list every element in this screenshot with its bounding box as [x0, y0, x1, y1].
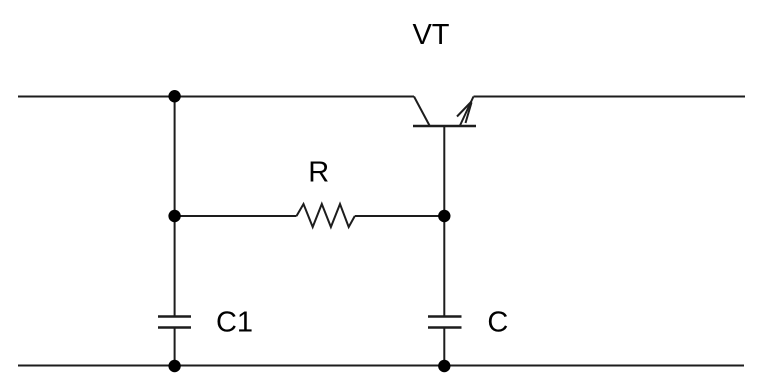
wire middle right segment: [355, 215, 445, 217]
resistor R zigzag: [297, 204, 355, 227]
wire top rail right segment: [474, 96, 746, 98]
junction dot top left: [168, 90, 180, 102]
junction dot bottom left: [168, 360, 180, 372]
junction dot middle left: [168, 210, 180, 222]
capacitor C1 plates: [158, 317, 191, 328]
transistor VT emitter arrow: [457, 102, 472, 117]
wire right vertical lower: [443, 328, 445, 366]
svg-text:C: C: [487, 307, 508, 339]
wire right vertical (base to C): [443, 126, 445, 317]
capacitor C plates: [428, 317, 462, 328]
wire middle left segment: [175, 215, 297, 217]
svg-text:VT: VT: [412, 19, 449, 51]
transistor VT base bar: [413, 125, 476, 127]
wire top rail left segment: [18, 96, 414, 98]
transistor VT emitter: [460, 97, 474, 126]
transistor VT collector: [414, 97, 430, 126]
junction dot bottom right: [438, 360, 450, 372]
transistor VT: [413, 97, 476, 127]
junction dot middle right: [438, 210, 450, 222]
svg-text:C1: C1: [216, 307, 253, 339]
wire bottom rail: [18, 365, 744, 367]
wire left vertical upper: [174, 97, 176, 317]
svg-text:R: R: [308, 157, 329, 189]
wire left vertical lower: [174, 328, 176, 366]
